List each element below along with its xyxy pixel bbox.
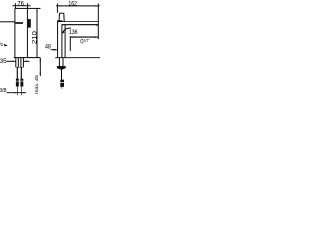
svg-text:76: 76 — [17, 0, 24, 7]
body left edge — [14, 8, 16, 57]
leader arrow for 1/2 — [4, 44, 8, 47]
body right edge — [26, 8, 28, 57]
dark band — [15, 22, 23, 24]
dia35 arrow right-tip — [13, 61, 16, 62]
76 arrows — [13, 5, 16, 6]
side connector block — [60, 80, 64, 83]
3/8 arrows — [14, 92, 17, 93]
dim 162 line — [56, 5, 99, 7]
spout tip nub — [96, 24, 98, 25]
dia35 leader — [7, 60, 16, 62]
136 arc arrow — [62, 31, 64, 34]
counter line left — [14, 57, 41, 59]
max45 dim line — [39, 58, 41, 76]
svg-text:210: 210 — [31, 31, 38, 45]
svg-text:max. 45: max. 45 — [34, 75, 39, 95]
dim 76 ext ticks — [14, 3, 16, 8]
column left — [57, 21, 59, 58]
svg-text:162: 162 — [68, 1, 77, 8]
3/8 dim line — [7, 92, 27, 94]
hose 2 — [20, 67, 22, 79]
210 top ext line — [28, 7, 41, 9]
spout top — [57, 20, 62, 22]
side connector tail — [61, 87, 63, 89]
dia35 arrow left-tip — [24, 61, 27, 62]
side flange — [57, 66, 66, 70]
max45 arrow down — [40, 73, 41, 76]
spout bottom — [62, 24, 99, 26]
left connector block 1 — [16, 79, 19, 81]
210 arrow up — [36, 9, 37, 12]
shank lines — [15, 58, 17, 68]
body top edge — [15, 7, 28, 9]
162 left ext — [56, 3, 58, 12]
counter line right — [55, 57, 100, 59]
svg-text:1/2: 1/2 — [0, 42, 4, 47]
hose 1 — [16, 67, 18, 79]
left connector block 2 — [20, 79, 23, 81]
48 arrow — [54, 49, 58, 51]
spout joint line — [0, 21, 15, 23]
162 arrows — [57, 5, 60, 6]
max45 arrow up — [40, 58, 41, 61]
dim 76 line — [14, 5, 30, 7]
lower dim arrow right — [95, 36, 99, 38]
side shaft lines — [58, 58, 60, 66]
lower dim arrow left — [70, 36, 74, 38]
210 arrow down — [36, 54, 37, 57]
210 dim line — [36, 9, 38, 58]
136 arc — [63, 28, 72, 33]
48 leader — [51, 49, 57, 51]
svg-text:136: 136 — [69, 29, 78, 36]
column inner line — [61, 25, 63, 58]
handle side: top — [59, 12, 63, 14]
svg-text:35: 35 — [0, 58, 7, 65]
shank cap — [16, 66, 24, 68]
svg-text:3/8: 3/8 — [0, 88, 7, 94]
handle side: right — [63, 13, 65, 21]
handle (front) filled — [28, 19, 31, 28]
lower dim left ext — [69, 36, 71, 51]
svg-text:48: 48 — [45, 44, 51, 51]
handle side: left — [58, 13, 60, 21]
162/lower right ext — [97, 3, 99, 39]
lower dim line — [70, 36, 98, 38]
side hose — [61, 69, 63, 79]
column right — [64, 25, 66, 58]
connector tails — [16, 87, 18, 96]
